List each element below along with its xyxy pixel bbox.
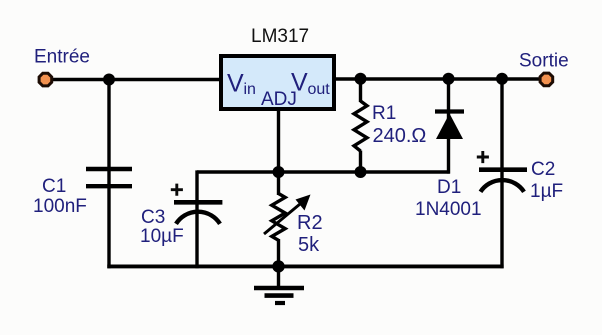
plus sign of C2 — [477, 151, 489, 163]
svg-text:Sortie: Sortie — [519, 51, 569, 72]
output terminal (Sortie) — [540, 73, 553, 86]
svg-text:C1: C1 — [42, 176, 66, 197]
wire R2 bottom lead — [277, 239, 280, 268]
wire input terminal to regulator Vin — [50, 78, 221, 81]
svg-text:C3: C3 — [141, 207, 165, 228]
diode D1 cathode bar — [435, 109, 464, 113]
svg-text:V: V — [227, 70, 244, 98]
wire C3 vertical lead — [195, 170, 198, 268]
svg-text:100nF: 100nF — [33, 196, 87, 217]
diode D1 triangle — [436, 114, 463, 140]
node R1/middle-rail junction — [355, 166, 367, 178]
svg-text:ADJ: ADJ — [261, 89, 297, 110]
wire bottom ground rail — [107, 264, 503, 268]
svg-text:C2: C2 — [531, 159, 555, 180]
wire R1 bottom lead — [359, 151, 362, 173]
svg-text:1µF: 1µF — [530, 181, 563, 202]
capacitor C3 curved plate — [176, 212, 220, 224]
svg-text:Entrée: Entrée — [34, 47, 90, 68]
wire ADJ pin down from regulator — [277, 109, 280, 173]
capacitor C3 top plate — [174, 200, 222, 205]
input terminal (Entrée) — [39, 73, 52, 86]
svg-text:240.Ω: 240.Ω — [373, 125, 427, 147]
resistor R2 zigzag (potentiometer) — [272, 194, 285, 241]
svg-text:R1: R1 — [372, 103, 396, 124]
plus sign of C3 — [171, 184, 183, 196]
potentiometer R2 arrow — [264, 202, 303, 235]
node Vout/R1 junction — [355, 73, 367, 85]
wire regulator Vout to output terminal — [334, 77, 542, 80]
svg-text:LM317: LM317 — [251, 26, 309, 47]
op-amp U1 regulator LM317 body — [221, 56, 334, 109]
wire D1 vertical lead — [447, 79, 450, 174]
svg-text:in: in — [244, 81, 256, 98]
node ground-rail/R2 junction — [272, 260, 284, 272]
capacitor C2 top plate — [479, 167, 527, 172]
wire C2 vertical lead — [500, 79, 503, 268]
ground — [277, 266, 280, 288]
capacitor C1 plates — [86, 167, 132, 171]
svg-text:D1: D1 — [437, 177, 461, 198]
svg-text:5k: 5k — [298, 234, 320, 256]
svg-text:out: out — [308, 81, 331, 98]
svg-text:1N4001: 1N4001 — [415, 199, 482, 220]
wire middle ADJ rail — [197, 170, 450, 173]
node Vout/C2 junction — [496, 73, 508, 85]
svg-text:R2: R2 — [297, 212, 323, 234]
node ADJ/middle-rail junction — [273, 166, 285, 178]
wire R2 top lead — [277, 172, 280, 195]
wire C1 vertical branch — [107, 79, 110, 268]
wire R1 top lead — [359, 79, 362, 102]
node input/C1 junction — [103, 74, 115, 86]
capacitor C2 curved plate — [481, 180, 525, 192]
svg-text:10µF: 10µF — [140, 226, 184, 247]
resistor R1 zigzag — [354, 101, 367, 151]
node Vout/D1 junction — [443, 73, 455, 85]
